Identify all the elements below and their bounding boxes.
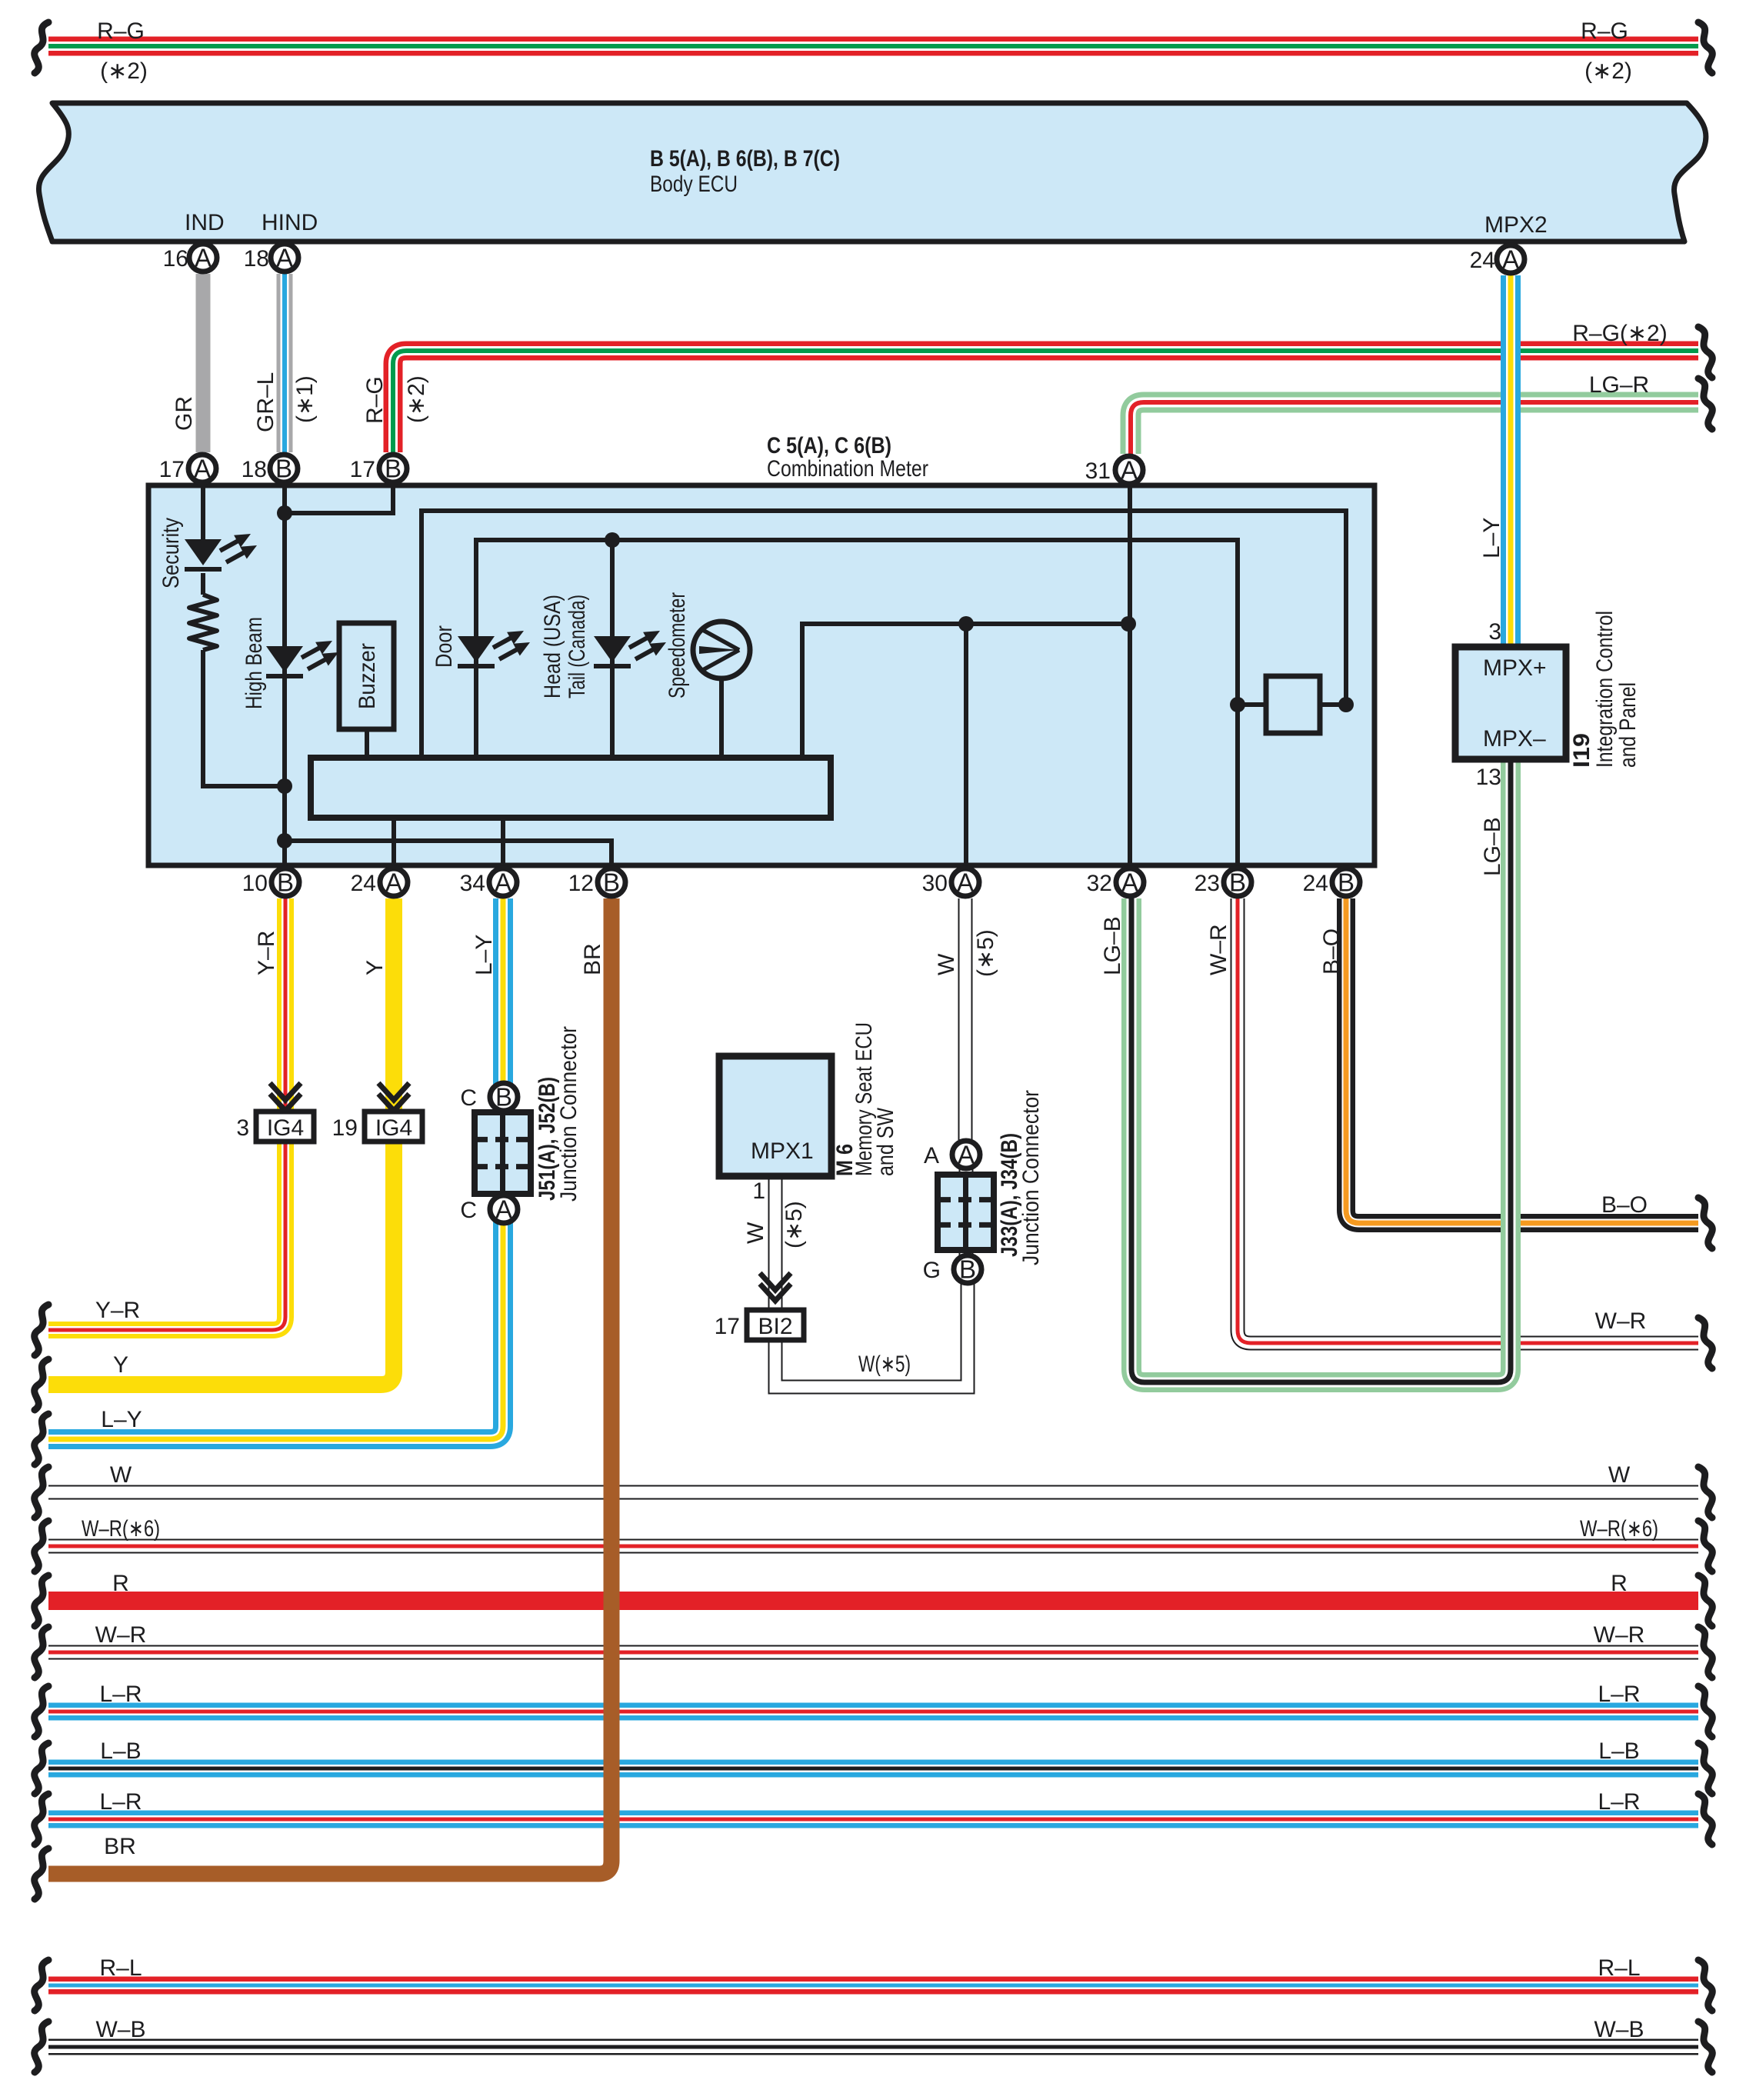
pin 18 A body ECU	[271, 244, 298, 272]
wire L-Y from MPX2 to I19 pin 3	[1501, 275, 1521, 647]
brace left W	[35, 1467, 48, 1518]
svg-text:B–O: B–O	[1601, 1192, 1648, 1218]
svg-text:IG4: IG4	[267, 1115, 304, 1141]
pin 32 A meter	[1116, 868, 1144, 897]
svg-text:W: W	[934, 953, 959, 975]
brace left W-R(*6)	[35, 1521, 48, 1572]
IG4 connector box 2	[365, 1112, 422, 1142]
svg-text:GR: GR	[172, 396, 197, 431]
svg-text:19: 19	[332, 1115, 358, 1141]
svg-text:A: A	[958, 1141, 975, 1169]
svg-text:Junction Connector: Junction Connector	[1018, 1090, 1044, 1265]
svg-text:L–Y: L–Y	[1479, 518, 1504, 558]
node small box left	[1230, 697, 1245, 712]
svg-text:C 5(A), C 6(B): C 5(A), C 6(B)	[767, 433, 891, 458]
wire head branch	[610, 540, 615, 757]
svg-text:B: B	[1338, 868, 1354, 897]
node small box right	[1338, 697, 1354, 712]
wire W-B	[48, 2039, 1698, 2055]
svg-text:A: A	[1502, 245, 1519, 274]
pin A J51	[490, 1195, 518, 1224]
svg-text:10: 10	[242, 871, 268, 896]
pin 17 B meter	[379, 455, 407, 483]
node pin 31A line	[1121, 616, 1136, 632]
svg-text:Integration Control: Integration Control	[1592, 611, 1618, 768]
brace left Y-R	[35, 1305, 48, 1355]
svg-text:17: 17	[715, 1314, 740, 1339]
wire LG-B U pin 32A to I19 pin 13	[1131, 759, 1511, 1382]
brace right W-R lower	[1698, 1318, 1712, 1368]
svg-text:12: 12	[568, 871, 594, 896]
wire door branch	[476, 540, 1238, 863]
pin 18 B meter	[270, 455, 298, 483]
svg-text:18: 18	[242, 457, 267, 482]
resistor security	[189, 595, 217, 650]
node pin 30A	[958, 616, 974, 632]
wire R	[48, 1592, 1698, 1610]
pin 16 A body ECU	[189, 244, 217, 272]
speedometer gauge	[693, 622, 750, 678]
svg-text:A: A	[957, 868, 974, 897]
svg-text:24: 24	[1470, 248, 1495, 273]
svg-text:R: R	[112, 1571, 129, 1596]
brace right R-G top	[1698, 22, 1712, 73]
svg-text:(∗5): (∗5)	[973, 929, 998, 977]
svg-text:18: 18	[244, 246, 269, 272]
svg-text:Y: Y	[362, 960, 388, 975]
svg-text:L–R: L–R	[1598, 1682, 1640, 1707]
brace right B-O	[1698, 1198, 1712, 1248]
wire BR	[48, 898, 611, 1874]
wire L-Y from pin 34A	[48, 898, 503, 1439]
pin 17 A meter	[188, 455, 216, 483]
svg-text:R–G: R–G	[362, 376, 388, 424]
node resistor high-beam	[277, 778, 292, 794]
pin 24 B meter	[1332, 868, 1360, 897]
wire B-O from pin 24B	[1346, 898, 1698, 1223]
svg-text:A: A	[1121, 456, 1138, 485]
wire GR	[196, 274, 211, 452]
brace right W-R	[1698, 1627, 1712, 1678]
wire GR-L	[277, 274, 293, 452]
wire speedometer lead	[719, 678, 724, 757]
svg-text:IG4: IG4	[375, 1115, 412, 1141]
svg-text:L–R: L–R	[99, 1682, 142, 1707]
node head LED	[605, 532, 620, 548]
wire W(*5) BI2 to J33 pin B	[775, 1284, 968, 1387]
svg-text:W–R: W–R	[1595, 1308, 1647, 1334]
svg-text:B: B	[385, 455, 402, 483]
svg-text:W–R(∗6): W–R(∗6)	[82, 1516, 160, 1542]
svg-text:1: 1	[752, 1178, 765, 1204]
svg-text:Combination Meter: Combination Meter	[767, 456, 928, 482]
wire W from pin 30A to J33 pin A	[958, 898, 973, 1140]
svg-text:24: 24	[1303, 871, 1328, 896]
svg-text:30: 30	[922, 871, 948, 896]
J51 J52 junction connector	[475, 1112, 531, 1194]
J33 J34 junction connector	[938, 1175, 994, 1250]
svg-text:LG–R: LG–R	[1589, 372, 1649, 398]
svg-text:B: B	[277, 868, 294, 897]
svg-text:Security: Security	[158, 518, 184, 588]
svg-text:W: W	[1608, 1462, 1631, 1488]
brace left L-R lower	[35, 1794, 48, 1845]
svg-text:IND: IND	[185, 210, 225, 235]
svg-text:A: A	[924, 1143, 939, 1168]
wire security branch	[203, 488, 285, 786]
svg-text:3: 3	[236, 1115, 249, 1141]
wire pin 31A to 32A internal	[1128, 488, 1132, 863]
brace left Y	[35, 1359, 48, 1410]
brace left L-R	[35, 1686, 48, 1737]
svg-text:17: 17	[350, 457, 375, 482]
svg-text:W: W	[743, 1222, 768, 1244]
svg-text:and Panel: and Panel	[1615, 682, 1641, 768]
svg-text:Door: Door	[432, 625, 457, 668]
svg-text:R: R	[1611, 1571, 1628, 1596]
IG4 connector box 1	[256, 1112, 314, 1142]
svg-text:13: 13	[1476, 765, 1501, 790]
svg-text:34: 34	[460, 871, 485, 896]
svg-text:I19: I19	[1569, 733, 1594, 768]
svg-text:R–L: R–L	[1598, 1955, 1640, 1981]
I19 Integration Control box	[1455, 647, 1566, 759]
svg-text:W–B: W–B	[1594, 2017, 1644, 2042]
wire W-R(*6)	[48, 1539, 1698, 1554]
svg-text:A: A	[276, 244, 293, 272]
Body ECU box	[38, 103, 1705, 242]
svg-text:17: 17	[159, 457, 185, 482]
svg-text:R–G(∗2): R–G(∗2)	[1572, 321, 1668, 346]
pin 24 A meter	[380, 868, 408, 897]
svg-text:B: B	[495, 1083, 512, 1112]
svg-text:C: C	[460, 1085, 477, 1111]
LED Security	[185, 534, 257, 572]
svg-text:B: B	[959, 1255, 976, 1284]
brace left R	[35, 1575, 48, 1626]
LED Door	[458, 631, 530, 668]
brace right R	[1698, 1575, 1712, 1626]
svg-text:BI2: BI2	[758, 1314, 792, 1339]
wire pin 34A lead	[501, 815, 505, 863]
svg-text:R–G: R–G	[1581, 18, 1628, 44]
svg-text:Tail (Canada): Tail (Canada)	[565, 595, 590, 698]
svg-text:(∗2): (∗2)	[404, 375, 429, 423]
wire inner loop top	[422, 511, 1346, 757]
brace right LG-R	[1698, 378, 1712, 429]
svg-text:Y: Y	[113, 1352, 128, 1378]
wire L-R lower	[48, 1811, 1698, 1828]
svg-text:BR: BR	[580, 943, 605, 975]
svg-text:W–R: W–R	[95, 1622, 147, 1648]
brace left W-B	[35, 2022, 48, 2072]
Combination Meter box	[148, 485, 1374, 865]
svg-text:BR: BR	[104, 1834, 136, 1859]
svg-text:A: A	[1121, 868, 1138, 897]
wire buzzer lead	[365, 729, 369, 757]
wire pin 30A internal	[964, 624, 968, 863]
brace right W-B	[1698, 2022, 1712, 2072]
wire pin 17B internal	[285, 488, 393, 513]
svg-text:L–B: L–B	[1598, 1738, 1639, 1764]
wire W	[48, 1485, 1698, 1500]
arrow to IG4 no19	[378, 1083, 409, 1111]
svg-text:Body ECU: Body ECU	[650, 172, 738, 197]
pin B J33	[954, 1255, 981, 1284]
brace right R-L	[1698, 1960, 1712, 2011]
svg-text:MPX+: MPX+	[1483, 655, 1547, 681]
svg-text:MPX1: MPX1	[751, 1138, 814, 1164]
component box right	[1266, 676, 1320, 733]
svg-text:24: 24	[351, 871, 376, 896]
pin 23 B meter	[1224, 868, 1251, 897]
svg-text:Buzzer: Buzzer	[355, 643, 380, 709]
svg-text:Y–R: Y–R	[95, 1298, 140, 1323]
svg-text:Head (USA): Head (USA)	[540, 595, 565, 698]
brace left W-R	[35, 1627, 48, 1678]
wire R-L	[48, 1977, 1698, 1995]
svg-text:W–B: W–B	[95, 2017, 145, 2042]
svg-text:B–O: B–O	[1319, 928, 1344, 975]
svg-text:L–B: L–B	[100, 1738, 141, 1764]
buzzer box	[339, 623, 394, 729]
svg-text:L–R: L–R	[99, 1789, 142, 1815]
svg-text:B: B	[603, 868, 620, 897]
svg-text:A: A	[195, 244, 212, 272]
svg-text:(∗2): (∗2)	[100, 58, 148, 84]
node pin 10B branch	[277, 833, 292, 848]
BI2 connector box	[747, 1310, 804, 1340]
pin B J51	[490, 1083, 518, 1112]
svg-text:(∗5): (∗5)	[781, 1201, 807, 1248]
pin A J33	[952, 1141, 980, 1169]
brace left L-Y	[35, 1414, 48, 1465]
brace right R-G(*2)	[1698, 327, 1712, 378]
svg-text:(∗1): (∗1)	[292, 375, 318, 423]
svg-text:A: A	[495, 1195, 512, 1224]
pin 24 A body ECU MPX2	[1497, 245, 1524, 274]
wire W inside J33	[959, 1169, 974, 1255]
LED High Beam	[266, 641, 338, 678]
brace left R-G top	[35, 22, 48, 73]
wire high-beam branch	[282, 488, 287, 863]
wire W M6 pin 1 to BI2	[768, 1176, 783, 1310]
wire W-R from pin 23B	[1238, 898, 1698, 1343]
wire W-R	[48, 1645, 1698, 1660]
svg-text:W(∗5): W(∗5)	[858, 1352, 911, 1377]
svg-text:G: G	[923, 1258, 941, 1283]
svg-text:A: A	[194, 455, 211, 483]
svg-text:HIND: HIND	[262, 210, 318, 235]
svg-text:A: A	[385, 868, 402, 897]
pin 12 B meter	[598, 868, 625, 897]
svg-text:L–R: L–R	[1598, 1789, 1640, 1815]
svg-text:31: 31	[1085, 458, 1111, 484]
wire bottom link to pin 12B	[285, 841, 611, 863]
svg-text:LG–B: LG–B	[1100, 916, 1125, 975]
wire Y	[48, 898, 394, 1385]
brace right L-R	[1698, 1686, 1712, 1737]
pin 10 B meter	[272, 868, 299, 897]
svg-text:16: 16	[163, 246, 188, 272]
svg-text:C: C	[460, 1198, 477, 1223]
svg-text:W–R: W–R	[1206, 924, 1231, 975]
brace right L-B	[1698, 1743, 1712, 1794]
svg-text:Y–R: Y–R	[254, 931, 279, 975]
svg-text:Junction Connector: Junction Connector	[556, 1026, 581, 1202]
brace left R-L	[35, 1960, 48, 2011]
svg-text:R–L: R–L	[99, 1955, 142, 1981]
arrow to IG4 no3	[270, 1083, 301, 1111]
svg-text:LG–B: LG–B	[1480, 817, 1505, 876]
svg-text:3: 3	[1488, 619, 1501, 645]
svg-text:GR–L: GR–L	[253, 372, 278, 432]
svg-text:L–Y: L–Y	[471, 935, 497, 975]
node 18B-17B	[277, 505, 292, 521]
wire LG-R to pin 31A	[1131, 402, 1698, 454]
LED Head Tail	[594, 631, 666, 668]
M6 Memory Seat ECU box	[719, 1056, 831, 1176]
svg-text:MPX2: MPX2	[1484, 212, 1548, 238]
svg-text:High Beam: High Beam	[242, 617, 267, 709]
svg-text:MPX–: MPX–	[1483, 726, 1546, 752]
svg-text:B 5(A), B 6(B), B 7(C): B 5(A), B 6(B), B 7(C)	[650, 146, 840, 172]
pin 31 A meter	[1115, 456, 1143, 485]
brace right W	[1698, 1467, 1712, 1518]
wire L-R	[48, 1703, 1698, 1721]
wire gauge bus link	[802, 624, 1128, 757]
pin 30 A meter	[951, 868, 979, 897]
brace left BR	[35, 1848, 48, 1899]
brace left L-B	[35, 1743, 48, 1794]
svg-text:B: B	[275, 455, 292, 483]
wire pin 24A lead	[392, 815, 396, 863]
svg-text:A: A	[495, 868, 511, 897]
wire R-G (*2) from pin 17B	[393, 351, 1698, 452]
wire small box leads	[1238, 702, 1346, 707]
svg-text:L–Y: L–Y	[101, 1407, 142, 1432]
svg-text:W–R: W–R	[1594, 1622, 1645, 1648]
bus bar	[311, 758, 831, 818]
svg-text:Speedometer: Speedometer	[665, 592, 690, 698]
wire Y-R	[48, 898, 285, 1330]
svg-text:B: B	[1229, 868, 1246, 897]
svg-text:23: 23	[1195, 871, 1220, 896]
svg-text:32: 32	[1087, 871, 1112, 896]
arrow to BI2	[760, 1273, 791, 1301]
wire R-G (*2) top	[48, 37, 1698, 56]
pin 34 A meter	[489, 868, 517, 897]
brace right L-R lower	[1698, 1794, 1712, 1845]
brace right W-R(*6)	[1698, 1521, 1712, 1572]
svg-text:(∗2): (∗2)	[1584, 58, 1632, 84]
svg-text:and SW: and SW	[873, 1107, 898, 1176]
svg-text:W–R(∗6): W–R(∗6)	[1580, 1516, 1658, 1542]
svg-text:W: W	[110, 1462, 132, 1488]
svg-text:R–G: R–G	[97, 18, 145, 44]
wire L-B	[48, 1760, 1698, 1778]
